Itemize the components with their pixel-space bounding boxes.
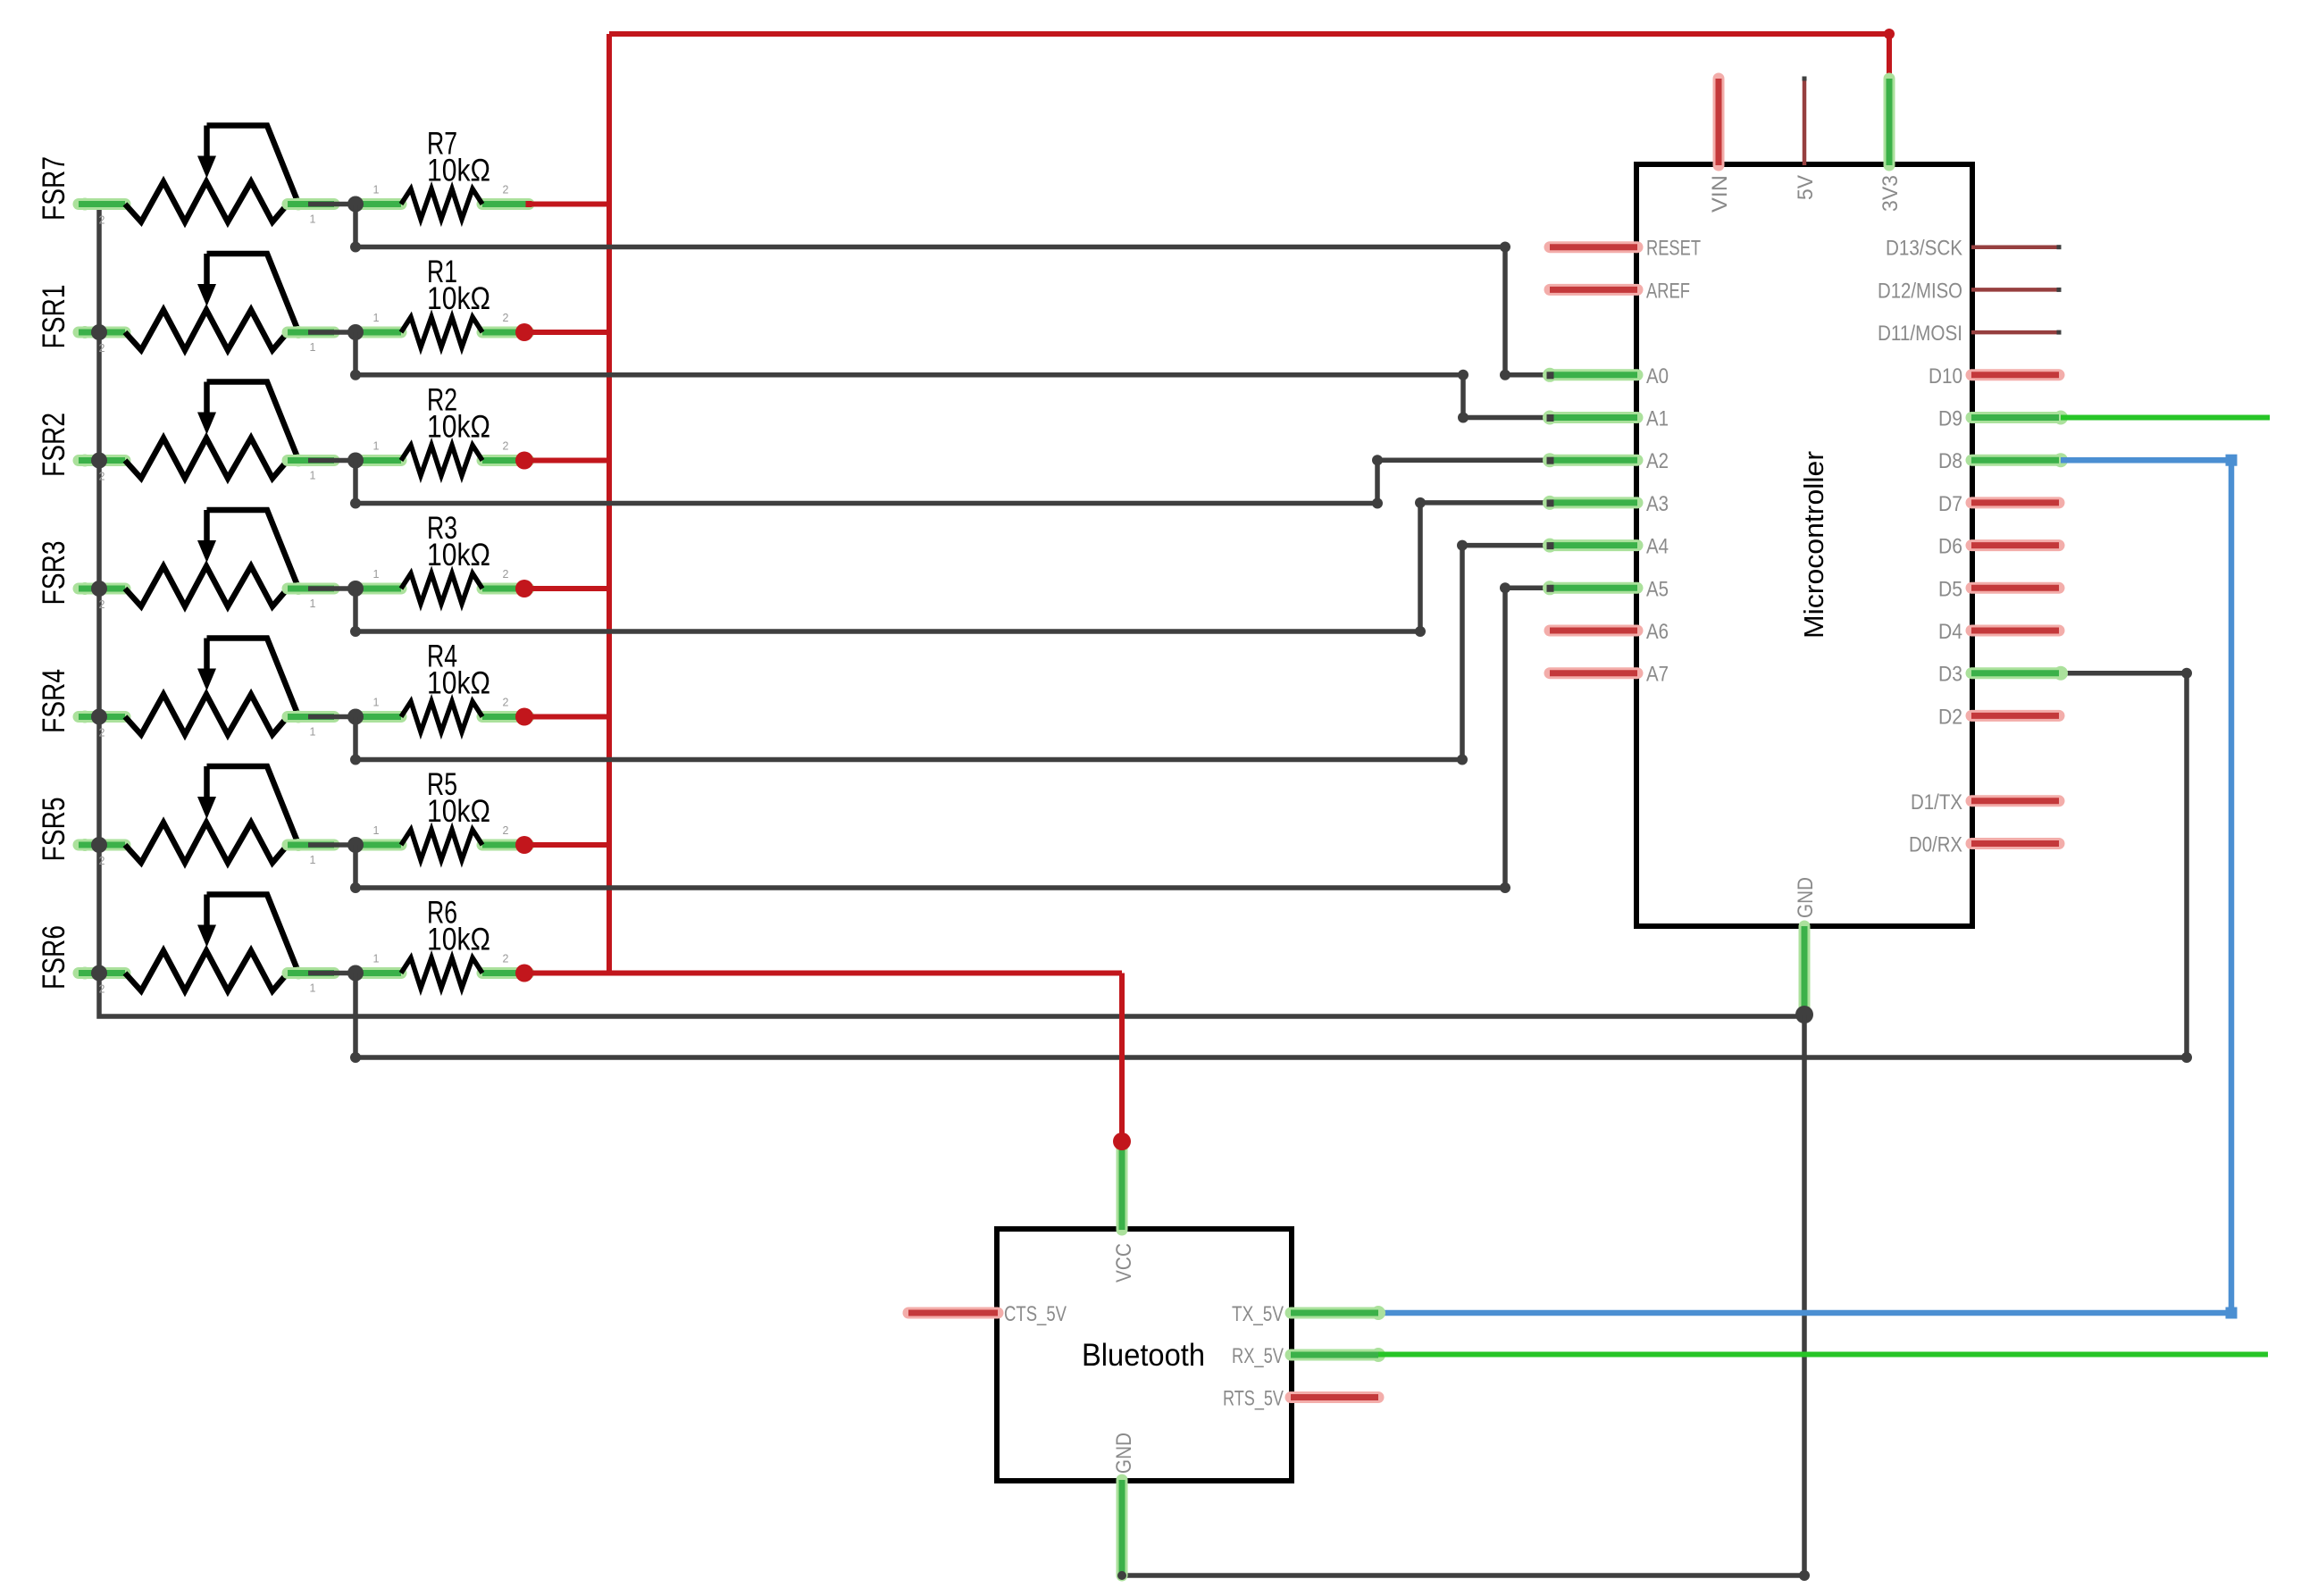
U2 pin RX_5V	[1232, 1344, 1385, 1368]
svg-text:D7: D7	[1938, 492, 1962, 516]
svg-text:D4: D4	[1938, 620, 1962, 644]
wire: ground to Bluetooth GND	[1122, 1015, 1804, 1575]
svg-text:1: 1	[310, 470, 316, 482]
junction dot node FSR3/R3	[347, 581, 364, 597]
FSR FSR1 force sensing resistor (potentiometer symbol)	[79, 254, 334, 355]
U1 pin D3	[1938, 663, 2068, 687]
resistor R3	[356, 568, 529, 604]
wire: FSR4 pin1 to junction	[308, 714, 356, 720]
wire: FSR2 junction to A2	[350, 455, 1550, 508]
U1 pin A7	[1550, 663, 1669, 687]
svg-text:A6: A6	[1646, 620, 1669, 644]
FSR FSR4 force sensing resistor (potentiometer symbol)	[79, 639, 334, 740]
junction dot node FSR2/R2	[347, 453, 364, 469]
svg-text:2: 2	[99, 727, 105, 740]
svg-text:1: 1	[310, 341, 316, 354]
U1 pin A5	[1543, 577, 1669, 601]
junction dot node FSR6/R6	[347, 965, 364, 982]
wire: red R2 pin2 to bus	[515, 452, 609, 470]
U1 pin AREF	[1550, 279, 1690, 303]
wire: Bluetooth RX_5V green	[1378, 1352, 2268, 1358]
svg-text:A2: A2	[1646, 449, 1669, 473]
wire: FSR7 pin1 to junction	[308, 202, 356, 207]
U1 pin D13/SCK	[1886, 237, 2062, 261]
svg-text:2: 2	[99, 342, 105, 355]
svg-text:10kΩ: 10kΩ	[427, 410, 490, 445]
svg-text:FSR5: FSR5	[37, 798, 71, 862]
U1 pin D9	[1938, 407, 2068, 431]
junction dot FSR4 pin2 on ground rail	[91, 709, 107, 725]
U1 pin A0	[1543, 364, 1669, 389]
svg-text:2: 2	[503, 312, 509, 324]
wire: FSR3 pin1 to junction	[308, 586, 356, 591]
junction dot FSR2 pin2 on ground rail	[91, 453, 107, 469]
FSR FSR3 force sensing resistor (potentiometer symbol)	[79, 510, 334, 611]
svg-text:2: 2	[503, 184, 509, 196]
svg-text:RESET: RESET	[1646, 237, 1701, 261]
svg-text:GND: GND	[1112, 1433, 1136, 1474]
U2 pin VCC	[1112, 1141, 1136, 1283]
U1 pin D8	[1938, 449, 2068, 473]
labels R1 10kΩ value	[427, 255, 490, 316]
svg-text:Bluetooth: Bluetooth	[1082, 1338, 1205, 1373]
svg-text:2: 2	[503, 953, 509, 965]
svg-text:1: 1	[310, 213, 316, 226]
svg-text:VIN: VIN	[1708, 175, 1732, 213]
svg-text:D8: D8	[1938, 449, 1962, 473]
svg-text:FSR2: FSR2	[37, 413, 71, 477]
U1 pin D10	[1929, 364, 2059, 389]
FSR FSR2 force sensing resistor (potentiometer symbol)	[79, 382, 334, 483]
svg-text:1: 1	[373, 953, 380, 965]
svg-text:10kΩ: 10kΩ	[427, 281, 490, 316]
FSR FSR5 force sensing resistor (potentiometer symbol)	[79, 766, 334, 867]
U2 pin CTS_5V	[908, 1302, 1067, 1326]
U2 pin TX_5V	[1232, 1302, 1385, 1326]
svg-text:D9: D9	[1938, 407, 1962, 431]
wire: red R7 pin2 to bus	[526, 201, 610, 207]
wire: FSR5 junction to A5	[350, 582, 1550, 893]
labels R7 10kΩ value	[427, 127, 490, 188]
U2 pin GND	[1112, 1433, 1136, 1575]
svg-text:2: 2	[99, 598, 105, 611]
svg-text:2: 2	[503, 568, 509, 581]
junction dot FSR1 pin2 on ground rail	[91, 324, 107, 340]
junction dot FSR6 pin2 on ground rail	[91, 965, 107, 982]
U1 pin 3V3	[1878, 79, 1903, 212]
resistor R7	[356, 184, 529, 220]
svg-text:FSR7: FSR7	[37, 156, 71, 221]
U1 pin D4	[1938, 620, 2059, 644]
svg-text:1: 1	[373, 312, 380, 324]
resistor R6	[356, 953, 529, 989]
svg-text:2: 2	[503, 440, 509, 453]
FSR FSR7 force sensing resistor (potentiometer symbol)	[79, 126, 334, 227]
svg-text:1: 1	[373, 184, 380, 196]
svg-text:D0/RX: D0/RX	[1909, 833, 1962, 857]
labels R6 10kΩ value	[427, 896, 490, 957]
svg-text:Microcontroller: Microcontroller	[1798, 451, 1829, 639]
svg-text:AREF: AREF	[1646, 279, 1690, 303]
labels R3 10kΩ value	[427, 511, 490, 572]
svg-text:D10: D10	[1929, 364, 1962, 389]
U1 pin A3	[1543, 492, 1669, 516]
U1 pin A1	[1543, 407, 1669, 431]
U1 pin D1/TX	[1911, 790, 2059, 815]
svg-text:FSR6: FSR6	[37, 925, 71, 990]
svg-text:10kΩ: 10kΩ	[427, 923, 490, 957]
wire: FSR7 junction to A0	[350, 205, 1550, 380]
bend dot ground wire	[1799, 1570, 1810, 1581]
wire: red R6 pin2 to Bluetooth VCC drop	[515, 965, 1122, 982]
svg-text:FSR3: FSR3	[37, 541, 71, 606]
svg-text:RX_5V: RX_5V	[1232, 1344, 1284, 1368]
svg-text:A4: A4	[1646, 535, 1669, 559]
svg-text:1: 1	[310, 854, 316, 866]
svg-text:D12/MISO: D12/MISO	[1878, 279, 1962, 303]
svg-text:D13/SCK: D13/SCK	[1886, 237, 1962, 261]
wire: red R5 pin2 to bus	[515, 836, 609, 854]
svg-text:2: 2	[99, 983, 105, 996]
U1 pin A4	[1543, 535, 1669, 559]
U1 pin D0/RX	[1909, 833, 2059, 857]
U1 pin D5	[1938, 577, 2059, 601]
svg-text:D3: D3	[1938, 663, 1962, 687]
svg-text:A5: A5	[1646, 577, 1669, 601]
svg-text:RTS_5V: RTS_5V	[1223, 1387, 1284, 1411]
U1 pin D7	[1938, 492, 2059, 516]
svg-text:2: 2	[99, 214, 105, 227]
svg-text:3V3: 3V3	[1878, 175, 1903, 212]
wire: FSR2 pin1 to junction	[308, 458, 356, 464]
junction dot red VCC	[1113, 1132, 1131, 1150]
labels R2 10kΩ value	[427, 383, 490, 445]
junction dot ground node	[1795, 1006, 1813, 1024]
wire: red R4 pin2 to bus	[515, 708, 609, 726]
svg-text:1: 1	[310, 597, 316, 610]
wire: D9 green to RX net	[2061, 415, 2270, 421]
junction dot red at 3V3 corner	[1884, 29, 1895, 39]
U1 pin D2	[1938, 705, 2059, 729]
U1 pin VIN	[1708, 79, 1732, 213]
U2 pin RTS_5V	[1223, 1387, 1378, 1411]
wire: red R1 pin2 to bus	[515, 323, 609, 341]
svg-text:GND: GND	[1794, 877, 1818, 918]
svg-text:D11/MOSI: D11/MOSI	[1878, 322, 1962, 346]
svg-text:D6: D6	[1938, 535, 1962, 559]
resistor R1	[356, 312, 529, 347]
svg-text:5V: 5V	[1794, 175, 1818, 200]
svg-text:TX_5V: TX_5V	[1232, 1302, 1284, 1326]
svg-text:A0: A0	[1646, 364, 1669, 389]
svg-text:1: 1	[373, 440, 380, 453]
svg-text:2: 2	[503, 697, 509, 709]
svg-text:1: 1	[310, 982, 316, 995]
resistor R5	[356, 824, 529, 860]
junction dot node FSR7/R7	[347, 196, 364, 213]
wire: FSR1 pin1 to junction	[308, 330, 356, 335]
junction dot node FSR5/R5	[347, 837, 364, 853]
wire: FSR6 pin1 to junction	[308, 971, 356, 976]
wire: red drop to Bluetooth VCC	[1119, 973, 1125, 1142]
svg-text:1: 1	[373, 568, 380, 581]
U1 pin D6	[1938, 535, 2059, 559]
junction dot FSR5 pin2 on ground rail	[91, 837, 107, 853]
labels R5 10kΩ value	[427, 767, 490, 829]
svg-text:A3: A3	[1646, 492, 1669, 516]
svg-text:CTS_5V: CTS_5V	[1004, 1302, 1067, 1326]
svg-text:1: 1	[373, 697, 380, 709]
wire: D8 to Bluetooth TX_5V (blue)	[1378, 455, 2238, 1319]
wire: FSR5 pin1 to junction	[308, 842, 356, 848]
U1 pin D12/MISO	[1878, 279, 2062, 303]
FSR FSR6 force sensing resistor (potentiometer symbol)	[79, 895, 334, 996]
svg-text:2: 2	[503, 824, 509, 837]
svg-text:D1/TX: D1/TX	[1911, 790, 1962, 815]
svg-text:10kΩ: 10kΩ	[427, 666, 490, 701]
wire: FSR4 junction to A4	[350, 540, 1550, 765]
svg-text:A1: A1	[1646, 407, 1669, 431]
Bluetooth module U2 box	[997, 1229, 1292, 1481]
U1 pin RESET	[1550, 237, 1701, 261]
svg-text:10kΩ: 10kΩ	[427, 538, 490, 572]
wire: FSR1 junction to A1	[350, 332, 1550, 423]
svg-text:VCC: VCC	[1112, 1243, 1136, 1283]
wire: FSR6 junction to D3	[350, 668, 2192, 1063]
svg-text:1: 1	[310, 726, 316, 739]
wire: FSR3 junction to A3	[350, 497, 1550, 637]
svg-text:FSR1: FSR1	[37, 285, 71, 349]
wire: red +V vertical bus	[607, 34, 612, 973]
U1 pin D11/MOSI	[1878, 322, 2062, 346]
resistor R2	[356, 440, 529, 476]
svg-text:1: 1	[373, 824, 380, 837]
svg-text:D2: D2	[1938, 705, 1962, 729]
svg-text:2: 2	[99, 471, 105, 483]
wire: red R3 pin2 to bus	[515, 580, 609, 597]
svg-text:10kΩ: 10kΩ	[427, 154, 490, 188]
labels R4 10kΩ value	[427, 639, 490, 701]
svg-text:D5: D5	[1938, 577, 1962, 601]
U1 pin 5V	[1794, 77, 1818, 201]
wire: ground rail connecting FSR left pins	[99, 205, 1804, 1017]
resistor R4	[356, 697, 529, 732]
svg-text:A7: A7	[1646, 663, 1669, 687]
junction dot FSR3 pin2 on ground rail	[91, 581, 107, 597]
bend dot Bluetooth GND joint	[1117, 1571, 1126, 1580]
svg-text:2: 2	[99, 855, 105, 867]
U1 pin GND	[1794, 877, 1818, 1015]
junction dot node FSR4/R4	[347, 709, 364, 725]
U1 pin A2	[1543, 449, 1669, 473]
svg-text:10kΩ: 10kΩ	[427, 794, 490, 829]
svg-text:FSR4: FSR4	[37, 669, 71, 733]
junction dot node FSR1/R1	[347, 324, 364, 340]
U1 pin A6	[1550, 620, 1669, 644]
microcontroller U1 box	[1636, 164, 1972, 926]
wire: red top wire from bus to 3V3	[609, 34, 1889, 79]
